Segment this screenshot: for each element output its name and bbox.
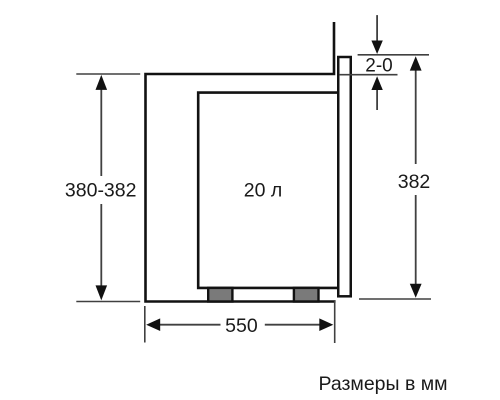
dim 382 up arrowhead xyxy=(410,56,422,70)
dim 550 left extension line xyxy=(144,306,146,343)
svg-text:380-382: 380-382 xyxy=(65,180,137,202)
svg-text:382: 382 xyxy=(398,171,431,193)
dim 382 upper line segment xyxy=(415,70,417,164)
dim 380-382 upper line segment xyxy=(100,88,102,176)
dim 550 right line segment xyxy=(265,324,321,326)
dim 380-382 top extension line xyxy=(76,73,140,75)
dim 380-382 bottom extension line xyxy=(76,301,140,303)
dim 382 down arrowhead xyxy=(410,284,422,298)
svg-text:550: 550 xyxy=(225,315,258,337)
dim 550 left arrowhead xyxy=(146,318,160,331)
dim 2-0 upper arrowhead xyxy=(371,41,382,55)
foot right xyxy=(294,288,319,302)
dim 382 lower line segment xyxy=(415,195,417,285)
svg-text:Размеры в мм: Размеры в мм xyxy=(319,373,448,395)
dim 382 bottom reference line xyxy=(359,298,431,300)
door front panel xyxy=(338,57,351,296)
dim 550 right extension line xyxy=(334,301,336,343)
dim 380-382 down arrowhead xyxy=(96,285,108,300)
cabinet outline (open right side, upright wall at top right) xyxy=(146,22,336,302)
dim 2-0 lower arrowhead xyxy=(371,76,382,90)
dim 550 right arrowhead xyxy=(319,318,333,331)
svg-text:20 л: 20 л xyxy=(244,180,282,202)
dim 380-382 lower line segment xyxy=(100,204,102,287)
dim 2-0 bottom reference line xyxy=(339,74,398,76)
dim 2-0 upper arrow line xyxy=(376,15,378,41)
svg-text:2-0: 2-0 xyxy=(365,56,392,77)
foot left xyxy=(208,288,232,302)
dim 380-382 up arrowhead xyxy=(96,75,108,90)
dim 2-0 top reference line xyxy=(358,54,429,56)
oven cavity rectangle xyxy=(198,93,338,288)
dim 2-0 lower arrow line xyxy=(376,90,378,110)
dim 550 left line segment xyxy=(158,324,221,326)
